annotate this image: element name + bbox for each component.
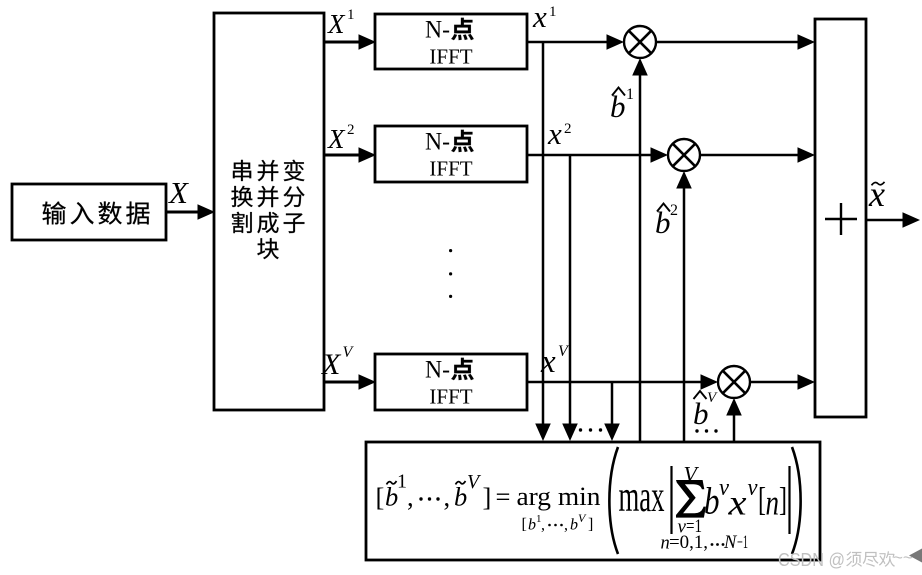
wire xV to multiplier M3 [527, 374, 718, 390]
svg-text:IFFT: IFFT [429, 157, 472, 181]
multiplier M3 [718, 366, 750, 398]
wire X2 [324, 147, 376, 163]
label b2-hat [655, 202, 678, 240]
wire x1 down to optimizer [535, 42, 551, 441]
wire M3 out to adder [750, 374, 815, 390]
wire b1 control up to M1 [632, 58, 648, 442]
formula max [619, 472, 665, 521]
label bV-hat [693, 390, 718, 431]
formula bv xv [n] [704, 475, 787, 523]
wire M2 out to adder [700, 147, 815, 163]
watermark CSDN [778, 548, 922, 570]
svg-text:1: 1 [549, 4, 557, 20]
svg-text:x: x [868, 174, 885, 214]
box U5 N-point IFFT V [375, 354, 527, 410]
multiplier M2 [668, 139, 700, 171]
svg-text:max: max [619, 472, 665, 521]
svg-text:X: X [167, 175, 189, 210]
svg-text:N-: N- [425, 16, 450, 43]
svg-text:b: b [454, 482, 467, 512]
dots below bV-hat [695, 429, 717, 432]
multiplier M1 [624, 26, 656, 58]
svg-text:−1: −1 [737, 533, 748, 553]
svg-text:=0,1,: =0,1, [669, 533, 708, 553]
svg-text:,: , [444, 482, 451, 512]
box U6 adder [815, 19, 866, 417]
wire X1 [324, 34, 376, 50]
svg-text:X: X [321, 348, 342, 381]
box U7 phase optimizer [366, 442, 820, 560]
box U4 N-point IFFT 2 [375, 126, 527, 182]
svg-text:V: V [343, 344, 355, 361]
svg-text:CSDN @: CSDN @ [778, 550, 845, 570]
wire output [866, 212, 920, 228]
svg-text:2: 2 [347, 122, 355, 138]
svg-text:]: ] [483, 482, 492, 512]
svg-text:1: 1 [626, 86, 634, 103]
dots vertical ellipsis between rows [449, 249, 452, 298]
svg-text:[: [ [376, 482, 385, 512]
svg-text:N: N [723, 533, 738, 553]
svg-text:]: ] [779, 482, 787, 519]
svg-text:[: [ [522, 516, 527, 533]
dots between down arrows [579, 428, 602, 431]
svg-text:IFFT: IFFT [429, 385, 472, 409]
wire bV control up to M3 [726, 398, 742, 442]
svg-text:b: b [528, 517, 536, 534]
formula big parens [609, 447, 800, 554]
svg-text:x: x [532, 0, 547, 34]
svg-text:1: 1 [397, 471, 407, 493]
svg-text:]: ] [588, 516, 593, 533]
svg-text:x: x [547, 116, 562, 151]
svg-text:1: 1 [347, 7, 355, 23]
formula argmin subscript [522, 511, 594, 534]
svg-text:N-: N- [425, 356, 450, 383]
svg-text:x: x [727, 483, 746, 523]
wire XV [324, 374, 376, 390]
wire X input to S2P [166, 204, 215, 220]
label x2 [547, 116, 572, 151]
svg-text:x: x [540, 344, 556, 380]
formula n range subscript [661, 533, 749, 554]
wire M1 out to adder [656, 34, 815, 50]
box U1 input-data [12, 184, 166, 240]
wire x2 down to optimizer [562, 155, 578, 441]
svg-text:2: 2 [564, 121, 572, 137]
formula abs bars [672, 466, 790, 534]
wire x2 to multiplier M2 [527, 147, 668, 163]
wire b2 control up to M2 [676, 171, 692, 442]
label xV [540, 343, 570, 380]
box U2 serial-to-parallel splitter [214, 13, 324, 410]
label x-tilde output [868, 174, 885, 214]
svg-text:2: 2 [670, 202, 678, 219]
svg-text:V: V [707, 390, 718, 406]
label x1 [532, 0, 557, 34]
svg-text:b: b [704, 481, 720, 523]
svg-text:n: n [766, 483, 780, 523]
svg-text:~~: ~~ [893, 548, 913, 567]
svg-text:,: , [564, 517, 568, 534]
label X [167, 175, 189, 210]
svg-text:IFFT: IFFT [429, 45, 472, 69]
svg-text:X: X [327, 9, 346, 39]
svg-text:,: , [407, 482, 414, 512]
svg-text:arg min: arg min [517, 482, 601, 511]
wire x1 to multiplier M1 [527, 34, 624, 50]
svg-text:X: X [327, 124, 346, 154]
svg-text:N-: N- [425, 128, 450, 155]
svg-text:=: = [496, 482, 511, 512]
svg-text:v: v [748, 475, 758, 501]
formula summation sigma [676, 462, 706, 538]
label X1 [327, 7, 355, 39]
label X2 [327, 122, 355, 154]
label XV [321, 344, 355, 381]
formula left [b1,...,bV] = arg min [376, 471, 601, 512]
label b1-hat [610, 86, 634, 124]
svg-text:,: , [541, 517, 545, 534]
box U3 N-point IFFT 1 [375, 14, 527, 69]
svg-text:b: b [570, 517, 578, 534]
svg-text:V: V [558, 343, 570, 360]
wire xV down to optimizer [604, 382, 620, 441]
label plus [825, 203, 857, 235]
